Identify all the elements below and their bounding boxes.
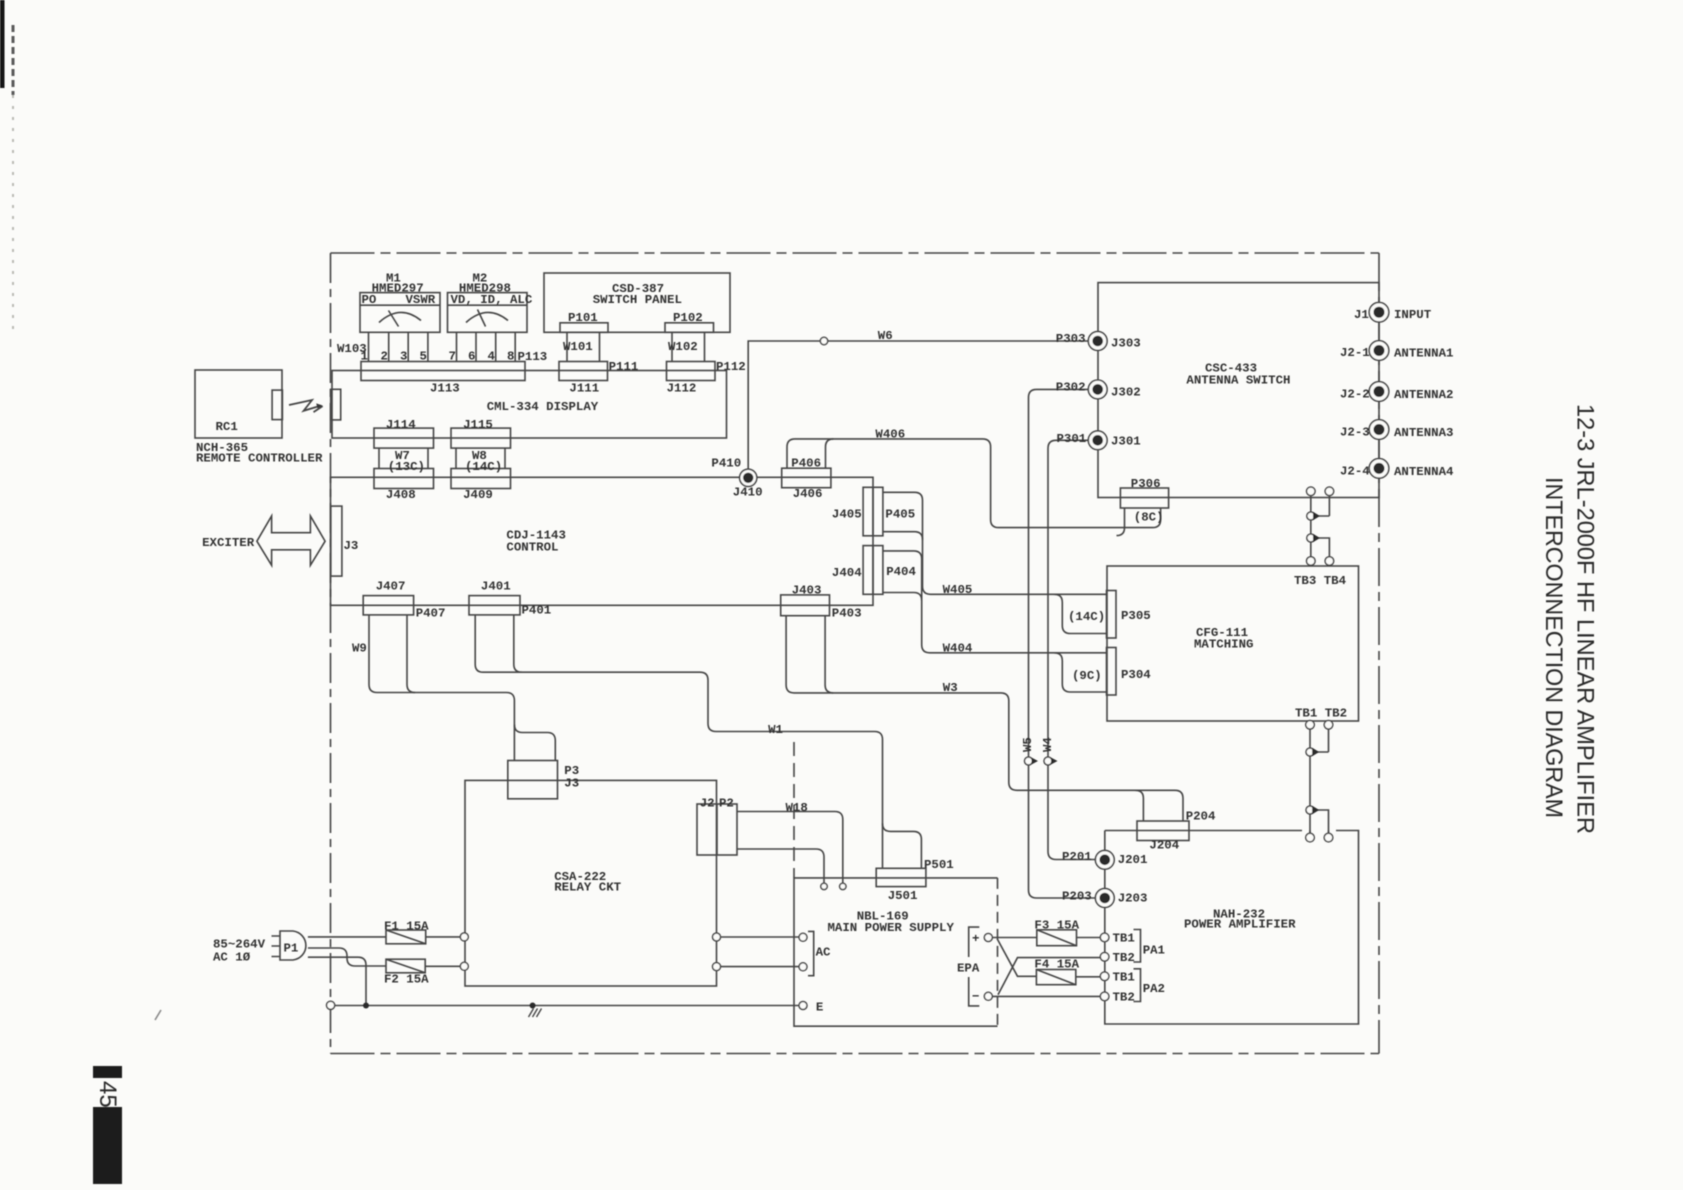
wire fuse F3 to TB1 PA1 xyxy=(1077,937,1101,939)
svg-text:+: + xyxy=(972,932,979,946)
wire W1 second leg at P401 xyxy=(514,615,522,672)
terminal TB4 upper xyxy=(1325,487,1334,496)
svg-text:W4: W4 xyxy=(1041,737,1055,752)
svg-text:W18: W18 xyxy=(786,801,808,815)
connector on RC1 right edge xyxy=(272,390,282,420)
svg-text:4: 4 xyxy=(488,350,496,364)
wire cable W18 J2/P2 to power supply terminals xyxy=(737,812,843,884)
wire EPA plus to fuse F3 xyxy=(992,937,1036,939)
wire W9 second leg at J407 xyxy=(407,615,415,693)
wire cable W404 P404 to P304 xyxy=(883,551,1107,653)
exciter double arrow xyxy=(257,516,325,565)
connector P305 on matching unit xyxy=(1107,591,1117,639)
meter M2 needle xyxy=(478,310,486,327)
connector J2/P2 on relay box xyxy=(697,804,737,855)
svg-text:TB1: TB1 xyxy=(1113,932,1135,946)
svg-text:J2-4: J2-4 xyxy=(1340,465,1370,479)
svg-text:AC 1Ø: AC 1Ø xyxy=(213,951,251,965)
svg-text:P303: P303 xyxy=(1056,332,1086,346)
svg-text:W9: W9 xyxy=(352,642,367,656)
svg-text:W102: W102 xyxy=(668,340,698,354)
svg-text:E: E xyxy=(816,1001,823,1015)
svg-text:W5: W5 xyxy=(1021,737,1035,752)
connector P3/J3 on relay box xyxy=(508,761,558,799)
svg-text:F3 15A: F3 15A xyxy=(1034,919,1079,933)
wire W406 second leg at P406 xyxy=(826,439,834,468)
svg-text:J303: J303 xyxy=(1111,337,1141,351)
wire fuse F2 to relay box xyxy=(425,965,460,967)
terminal TB1 PA1 xyxy=(1100,933,1109,942)
svg-text:W404: W404 xyxy=(943,642,973,656)
wire W404 second leg at P404 xyxy=(883,593,922,601)
coax jack J201 xyxy=(1095,850,1114,869)
wire P302 to P203 (cable W5) xyxy=(1029,389,1096,898)
fuse F3 xyxy=(1037,930,1077,946)
cable W102 leads xyxy=(672,332,705,361)
ground symbol on E line xyxy=(529,1009,542,1018)
meter M1 pin leads W103 xyxy=(369,332,428,361)
cable marker W5 xyxy=(1025,757,1033,765)
svg-text:TB1 TB2: TB1 TB2 xyxy=(1295,707,1347,721)
junction dot ground xyxy=(530,1003,536,1009)
svg-text:RELAY CKT: RELAY CKT xyxy=(554,881,621,895)
wire cable W3 P403 to P204 xyxy=(786,616,1183,821)
svg-text:J403: J403 xyxy=(792,584,822,598)
svg-text:W1: W1 xyxy=(768,723,783,737)
svg-text:−: − xyxy=(972,990,979,1004)
svg-text:ANTENNA2: ANTENNA2 xyxy=(1394,388,1454,402)
svg-text:5: 5 xyxy=(420,350,427,364)
svg-text:P1: P1 xyxy=(284,942,299,956)
connector J113/P113 xyxy=(361,362,525,381)
svg-text:J409: J409 xyxy=(463,488,493,502)
svg-text:P404: P404 xyxy=(886,565,916,579)
terminal W18 left on supply xyxy=(821,883,827,889)
svg-text:SWITCH PANEL: SWITCH PANEL xyxy=(593,293,682,307)
svg-text:J401: J401 xyxy=(481,580,511,594)
coax jack J301 xyxy=(1088,431,1107,450)
svg-text:EPA: EPA xyxy=(957,962,980,976)
svg-text:P410: P410 xyxy=(711,457,741,471)
svg-text:INPUT: INPUT xyxy=(1394,308,1432,322)
terminal relay box left bottom xyxy=(460,962,468,970)
svg-text:PA1: PA1 xyxy=(1143,944,1165,958)
svg-text:POWER AMPLIFIER: POWER AMPLIFIER xyxy=(1184,918,1296,932)
svg-text:P301: P301 xyxy=(1057,432,1087,446)
cable W8 (14C) leads xyxy=(456,448,505,468)
terminal TB2 under matching xyxy=(1324,721,1333,730)
svg-text:P111: P111 xyxy=(609,360,639,374)
svg-text:(9C): (9C) xyxy=(1072,669,1102,683)
svg-text:W405: W405 xyxy=(943,583,973,597)
wire relay box to AC terminal top xyxy=(721,936,800,938)
svg-text:J410: J410 xyxy=(733,486,763,500)
svg-text:INTERCONNECTION DIAGRAM: INTERCONNECTION DIAGRAM xyxy=(1540,477,1567,818)
wire cable W406 P406 to P306 xyxy=(787,439,1161,528)
coax jack J2-3 ANTENNA3 xyxy=(1369,420,1389,440)
fuse F1 xyxy=(386,930,426,944)
coax jack J2-4 ANTENNA4 xyxy=(1369,459,1389,479)
box CDJ-1143 control xyxy=(331,477,874,605)
connector J403/P403 xyxy=(781,595,830,616)
relay contact 2 antenna chain xyxy=(1307,534,1315,542)
meter M1 needle xyxy=(389,311,399,327)
svg-text:(8C): (8C) xyxy=(1134,511,1164,525)
svg-text:MATCHING: MATCHING xyxy=(1194,638,1254,652)
svg-text:P102: P102 xyxy=(673,311,703,325)
connector J409 xyxy=(451,469,511,489)
svg-text:EXCITER: EXCITER xyxy=(202,536,255,550)
svg-text:1: 1 xyxy=(361,350,368,364)
svg-text:J302: J302 xyxy=(1111,386,1141,400)
svg-text:J2-3: J2-3 xyxy=(1340,426,1370,440)
feedthrough circle on W6 xyxy=(820,337,827,344)
svg-text:TB2: TB2 xyxy=(1113,991,1135,1005)
box NBL-169 main power supply (right edge dashed) xyxy=(794,878,998,1026)
svg-text:J113: J113 xyxy=(430,382,460,396)
connector J404/P404 xyxy=(863,546,883,595)
svg-text:P401: P401 xyxy=(522,604,552,618)
svg-text:TB2: TB2 xyxy=(1113,951,1135,965)
terminal E xyxy=(799,1002,807,1010)
scan edge black bar top-left xyxy=(0,0,5,88)
svg-text:P113: P113 xyxy=(518,350,548,364)
terminal TB3 upper xyxy=(1307,487,1316,496)
coax jack J302 xyxy=(1088,380,1107,399)
terminal relay box right top xyxy=(713,933,721,941)
wire P1 earth lead to E line xyxy=(308,957,366,1005)
svg-text:45: 45 xyxy=(94,1081,121,1108)
svg-text:J408: J408 xyxy=(386,488,416,502)
terminal on PA top edge right xyxy=(1324,833,1333,842)
terminal bracket AC xyxy=(808,931,814,975)
svg-text:P501: P501 xyxy=(924,858,954,872)
wire cable W9 J407 to P3 xyxy=(369,615,514,761)
svg-text:J405: J405 xyxy=(832,508,862,522)
svg-text:F1 15A: F1 15A xyxy=(384,920,429,934)
connector J2/P2 mating line xyxy=(716,804,718,855)
svg-text:RC1: RC1 xyxy=(216,420,238,434)
svg-text:J2: J2 xyxy=(700,797,715,811)
wire W9 branch into P3 right leg xyxy=(514,725,555,761)
wire earth E line xyxy=(335,1005,800,1007)
svg-text:P204: P204 xyxy=(1186,810,1216,824)
svg-text:W3: W3 xyxy=(943,681,958,695)
svg-text:ANTENNA3: ANTENNA3 xyxy=(1394,426,1454,440)
wire cable W405 P405 to P305 xyxy=(883,492,1107,594)
wire W1 branch into P501 right leg xyxy=(883,823,922,868)
terminal TB2 PA1 xyxy=(1100,953,1109,962)
wire EPA minus diagonal to TB2 PA1 xyxy=(998,958,1100,995)
svg-text:PO: PO xyxy=(362,293,377,307)
svg-text:J204: J204 xyxy=(1149,839,1179,853)
connector J407/P407 xyxy=(363,596,413,615)
connector J405 mating line xyxy=(872,487,874,536)
scan scratch marks left margin xyxy=(12,25,15,95)
svg-text:MAIN POWER SUPPLY: MAIN POWER SUPPLY xyxy=(828,921,955,935)
meter M1 scale arc xyxy=(379,312,421,322)
wire W3 second leg at P403 xyxy=(825,616,833,693)
coax jack J2-1 ANTENNA1 xyxy=(1369,341,1389,361)
connector on display left edge facing RC1 xyxy=(331,389,341,420)
box CSD-387 switch panel xyxy=(544,273,730,332)
connector J3 on control left edge xyxy=(331,506,342,576)
svg-text:6: 6 xyxy=(468,350,475,364)
wire P1 to fuse F2 (jog) xyxy=(308,948,386,966)
relay contact 1 matching chain xyxy=(1306,748,1314,756)
meter M2 header rule xyxy=(448,304,528,306)
page number black bar small xyxy=(93,1066,122,1078)
terminal W18 right on supply xyxy=(840,883,846,889)
svg-text:W6: W6 xyxy=(878,329,893,343)
box CSA-222 relay ckt xyxy=(465,780,717,986)
box NAH-232 power amplifier (top edge gap at terminals) xyxy=(1105,831,1359,1025)
wire W6 from J410 riser to J303 xyxy=(748,341,1088,469)
terminal EPA plus xyxy=(984,934,992,942)
wireless zigzag arrow RC1 to display xyxy=(289,400,321,411)
wire W406 inner leg into P306 xyxy=(1117,508,1125,536)
relay contact chain TB3/TB4 between antenna switch and matching xyxy=(1310,496,1312,557)
scan scratch small diagonal xyxy=(155,1010,161,1020)
terminal AC top xyxy=(799,933,807,941)
svg-text:P407: P407 xyxy=(416,607,446,621)
svg-text:P403: P403 xyxy=(832,607,862,621)
connector J408 xyxy=(374,469,434,489)
svg-text:J111: J111 xyxy=(569,382,599,396)
box CSC-433 antenna switch xyxy=(1098,283,1379,498)
svg-text:P2: P2 xyxy=(719,797,734,811)
connector J114 xyxy=(374,428,434,448)
relay contact 2 matching chain xyxy=(1306,806,1314,814)
terminal TB3 lower xyxy=(1307,557,1316,566)
svg-text:P306: P306 xyxy=(1131,477,1161,491)
relay contact 1 antenna chain xyxy=(1307,512,1315,520)
svg-text:(14C): (14C) xyxy=(465,460,502,474)
wire fuse F4 to TB1 PA2 xyxy=(1076,976,1101,978)
svg-text:CONTROL: CONTROL xyxy=(506,541,558,555)
svg-text:3: 3 xyxy=(400,350,407,364)
bracket PA2 xyxy=(1134,969,1141,1002)
meter M2 HMED298 body xyxy=(448,293,528,333)
svg-text:J404: J404 xyxy=(832,566,862,580)
connector J405/P405 xyxy=(863,487,883,536)
terminal TB1 under matching xyxy=(1306,721,1315,730)
svg-text:CML-334 DISPLAY: CML-334 DISPLAY xyxy=(487,400,599,414)
svg-text:P101: P101 xyxy=(568,311,598,325)
svg-text:J2-2: J2-2 xyxy=(1340,388,1370,402)
svg-text:P112: P112 xyxy=(716,360,746,374)
connector P501/J501 on power supply xyxy=(876,868,926,886)
connector J401/P401 xyxy=(469,596,520,615)
wire EPA plus diagonal to fuse F4 feed xyxy=(997,939,1036,976)
svg-text:J115: J115 xyxy=(463,418,493,432)
terminal relay box right bottom xyxy=(713,963,721,971)
junction dot P1 earth xyxy=(363,1003,369,1009)
coax jack J203 xyxy=(1095,889,1114,908)
connector J115 xyxy=(451,428,511,448)
unit boundary dashed line left of main power supply xyxy=(793,742,795,878)
svg-text:P203: P203 xyxy=(1062,890,1092,904)
svg-text:W406: W406 xyxy=(875,428,905,442)
svg-text:J406: J406 xyxy=(793,487,823,501)
wire cable W1 P401 to P501 xyxy=(475,615,882,868)
svg-text:J3: J3 xyxy=(564,777,579,791)
wire EPA minus to TB2 PA2 xyxy=(992,995,1100,997)
svg-text:F2 15A: F2 15A xyxy=(384,973,429,987)
svg-text:J114: J114 xyxy=(386,418,416,432)
svg-text:J112: J112 xyxy=(667,382,697,396)
svg-text:F4 15A: F4 15A xyxy=(1034,958,1079,972)
svg-text:J301: J301 xyxy=(1111,435,1141,449)
wire P301 to P201 (cable W4) xyxy=(1048,440,1096,859)
meter M2 scale arc xyxy=(466,312,508,322)
terminal AC bottom xyxy=(799,963,807,971)
plug P102 on switch panel xyxy=(665,323,714,333)
terminal TB1 PA2 xyxy=(1100,972,1109,981)
terminal on PA top edge left xyxy=(1306,833,1315,842)
wire W404 branch into P304 lower leg xyxy=(1054,653,1106,692)
wire W3 inner leg into P204 xyxy=(1135,790,1143,820)
plug P1 prongs xyxy=(272,936,281,957)
outer frame left border (dash-dot) xyxy=(330,253,332,1054)
cable marker W4 xyxy=(1044,757,1052,765)
wire P1 to fuse F1 xyxy=(308,936,386,938)
bracket PA1 xyxy=(1134,930,1141,963)
coax jack J410 xyxy=(740,469,757,486)
meter M1 HMED297 body xyxy=(360,293,440,333)
svg-text:P201: P201 xyxy=(1062,850,1092,864)
svg-text:AC: AC xyxy=(816,946,831,960)
terminal TB4 lower xyxy=(1325,557,1334,566)
terminal E line left end xyxy=(327,1001,335,1009)
stems from PA top edge to terminals xyxy=(1310,831,1329,834)
svg-text:2: 2 xyxy=(381,350,388,364)
connector P306 on antenna switch xyxy=(1120,488,1168,508)
cable W101 leads xyxy=(567,332,600,361)
svg-text:J1: J1 xyxy=(1354,308,1369,322)
svg-text:P302: P302 xyxy=(1056,381,1086,395)
svg-text:P304: P304 xyxy=(1121,668,1151,682)
cable W7 (13C) leads xyxy=(379,448,428,468)
svg-text:VD, ID, ALC: VD, ID, ALC xyxy=(451,293,533,307)
wire relay box to AC terminal bottom xyxy=(721,966,800,968)
box NCH-365 remote controller RC1 xyxy=(195,370,282,438)
svg-text:J407: J407 xyxy=(376,580,406,594)
svg-text:J201: J201 xyxy=(1118,853,1148,867)
svg-text:W101: W101 xyxy=(563,340,593,354)
svg-text:ANTENNA SWITCH: ANTENNA SWITCH xyxy=(1186,374,1290,388)
svg-text:(14C): (14C) xyxy=(1068,610,1105,624)
svg-text:J501: J501 xyxy=(888,889,918,903)
outer frame right border (dash-dot) xyxy=(1378,253,1380,1054)
connector P204/J204 on power amplifier xyxy=(1137,821,1189,841)
coax jack J1 INPUT xyxy=(1369,302,1389,322)
coax jack J303 xyxy=(1088,332,1107,351)
relay contact chain TB1/TB2 between matching and power amplifier xyxy=(1309,729,1311,833)
fuse F4 xyxy=(1036,970,1075,985)
svg-text:J203: J203 xyxy=(1118,892,1148,906)
outer frame top border (dash-dot) xyxy=(331,252,1380,254)
svg-text:85~264V: 85~264V xyxy=(213,938,266,952)
svg-text:8: 8 xyxy=(507,350,514,364)
plug P1 AC inlet xyxy=(280,931,306,960)
page number black bar large xyxy=(93,1107,122,1184)
terminal TB2 PA2 xyxy=(1100,992,1109,1001)
svg-text:P305: P305 xyxy=(1121,609,1151,623)
connector J112/P112 xyxy=(667,362,716,381)
wire fuse F1 to relay box xyxy=(426,936,461,938)
svg-text:PA2: PA2 xyxy=(1143,982,1165,996)
meter M2 pin leads xyxy=(457,332,516,361)
coax jack J2-2 ANTENNA2 xyxy=(1369,382,1389,402)
svg-text:J2-1: J2-1 xyxy=(1340,346,1370,360)
svg-text:(13C): (13C) xyxy=(388,460,425,474)
svg-text:REMOTE CONTROLLER: REMOTE CONTROLLER xyxy=(196,452,323,466)
svg-text:J3: J3 xyxy=(344,539,359,553)
terminal EPA minus xyxy=(984,992,992,1000)
svg-text:ANTENNA4: ANTENNA4 xyxy=(1394,465,1454,479)
fuse F2 xyxy=(386,959,425,973)
svg-text:TB3 TB4: TB3 TB4 xyxy=(1294,574,1347,588)
plug P101 on switch panel xyxy=(560,323,608,333)
meter M1 header rule xyxy=(360,304,440,306)
box CFG-111 matching xyxy=(1107,566,1359,721)
connector J406/P406 xyxy=(782,468,831,488)
connector J404 mating line xyxy=(872,546,874,595)
svg-text:P406: P406 xyxy=(791,457,821,471)
svg-text:ANTENNA1: ANTENNA1 xyxy=(1394,347,1454,361)
svg-text:7: 7 xyxy=(449,350,456,364)
svg-text:P405: P405 xyxy=(885,508,915,522)
svg-text:VSWR: VSWR xyxy=(406,293,436,307)
wire W405 branch into P305 lower leg xyxy=(1054,594,1106,633)
connector J111/P111 xyxy=(559,362,608,381)
svg-text:TB1: TB1 xyxy=(1113,971,1135,985)
terminal bracket EPA xyxy=(969,927,980,1006)
svg-text:12-3 JRL-2000F HF LINEAR AMPLI: 12-3 JRL-2000F HF LINEAR AMPLIFIER xyxy=(1572,404,1599,834)
wire W405 second leg at P405 xyxy=(883,532,923,540)
box CML-334 display xyxy=(332,371,727,439)
outer frame bottom border (dash-dot) xyxy=(331,1053,1380,1055)
connector P304 on matching unit xyxy=(1107,648,1117,696)
terminal relay box left top xyxy=(460,933,468,941)
